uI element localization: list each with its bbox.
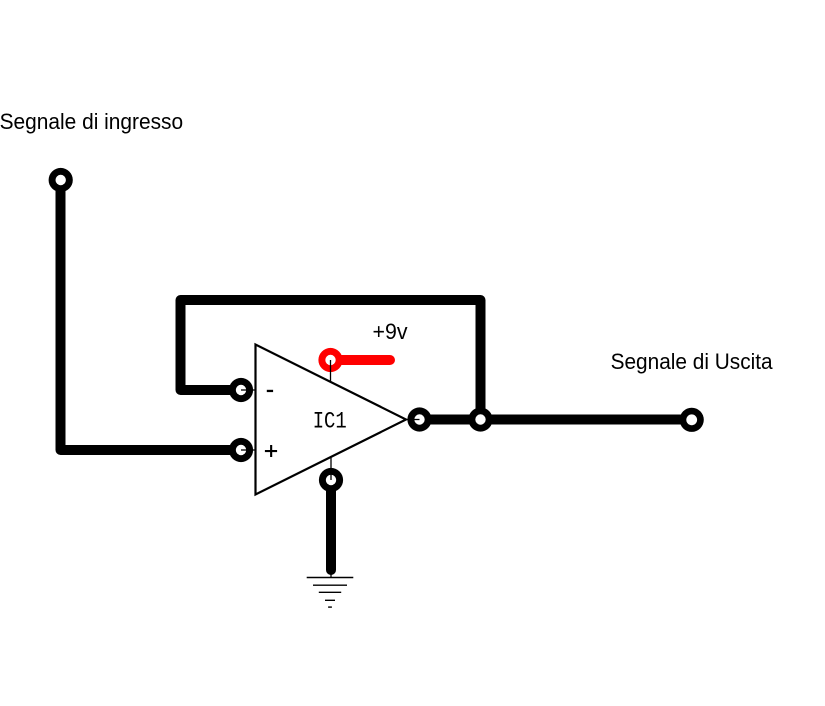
- ground symbol: [307, 578, 354, 608]
- terminal output (Segnale di Uscita): [680, 408, 704, 432]
- svg-text:+9v: +9v: [373, 319, 409, 344]
- terminal output pin of op-amp: [407, 407, 431, 431]
- pin lead output: [406, 419, 420, 421]
- svg-text:Segnale di Uscita: Segnale di Uscita: [611, 349, 773, 374]
- pin lead ground lower stub: [330, 568, 332, 578]
- wire +9v supply stub (red): [336, 355, 390, 365]
- terminal inverting input pin: [229, 378, 253, 402]
- label minus at inverting input: [267, 390, 273, 392]
- svg-text:IC1: IC1: [313, 409, 347, 435]
- wire feedback net: from - input left, up, right, down to output junction: [181, 300, 481, 420]
- terminal +9v supply (red): [318, 348, 342, 372]
- op-amp U1 triangle body: [256, 345, 407, 495]
- pin lead +9v supply: [330, 360, 332, 382]
- wire output net: from op-amp output to output terminal: [420, 415, 693, 425]
- pin lead non-inverting input: [241, 449, 256, 451]
- junction output node: [468, 407, 492, 431]
- wire ground net: from op-amp ground pin down to ground symbol: [326, 480, 336, 570]
- wire input net: from input terminal down and right to + input: [61, 180, 242, 450]
- terminal ground pin: [319, 468, 343, 492]
- label plus at non-inverting input: [265, 445, 277, 457]
- pin lead inverting input: [241, 389, 256, 391]
- svg-text:Segnale di ingresso: Segnale di ingresso: [0, 109, 183, 134]
- pin lead ground: [330, 457, 332, 480]
- terminal input (Segnale di ingresso): [49, 168, 73, 192]
- terminal non-inverting input pin: [229, 438, 253, 462]
